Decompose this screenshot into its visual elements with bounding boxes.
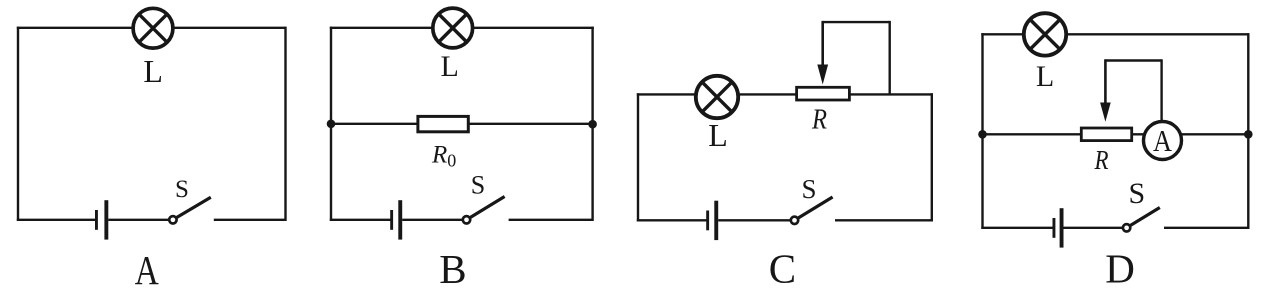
- svg-text:B: B: [439, 246, 466, 291]
- wiper arrow (D): [1100, 59, 1111, 122]
- svg-text:A: A: [135, 247, 159, 291]
- lamp L (C): [696, 76, 738, 118]
- wire: D middle branch: [983, 133, 1249, 135]
- wire: C wiper right vertical: [889, 21, 891, 96]
- junction dot (D left): [978, 130, 987, 139]
- wiper arrow (C): [817, 21, 828, 85]
- wire: B bottom right segment: [509, 219, 593, 221]
- wire: D left side: [981, 33, 983, 229]
- battery cell (C): [706, 201, 718, 240]
- wire: D bottom middle segment: [1064, 227, 1124, 229]
- rheostat R (C): [797, 87, 850, 100]
- svg-text:C: C: [769, 246, 796, 292]
- junction dot (D right): [1244, 130, 1253, 139]
- junction dot (B left): [327, 120, 336, 129]
- wire: C bottom middle segment: [718, 219, 791, 221]
- battery cell (D): [1053, 208, 1064, 247]
- lamp L (D): [1024, 13, 1066, 55]
- wire: B bottom middle segment: [402, 219, 463, 221]
- battery cell (B): [390, 200, 402, 239]
- wire: C left side: [637, 93, 639, 221]
- junction dot (B right): [588, 120, 597, 129]
- svg-text:R0: R0: [431, 142, 456, 171]
- wire: D bottom right segment: [1164, 227, 1248, 229]
- svg-text:S: S: [1128, 177, 1145, 210]
- wire: B bottom left segment: [330, 219, 391, 221]
- wire: C top side: [637, 93, 933, 95]
- wire: A right side: [284, 27, 286, 221]
- lamp L (B): [433, 8, 473, 48]
- switch S (C): [791, 197, 833, 224]
- wire: C bottom left segment: [637, 219, 707, 221]
- wire: D wiper top horizontal: [1105, 59, 1161, 61]
- switch S (B): [463, 197, 505, 224]
- wire: D bottom left segment: [981, 227, 1053, 229]
- wire: A bottom right segment: [214, 219, 286, 221]
- svg-text:L: L: [143, 53, 163, 89]
- resistor R0 (B): [418, 116, 468, 131]
- wire: C right side: [931, 93, 933, 221]
- wire: D right side: [1247, 33, 1249, 229]
- svg-text:L: L: [441, 50, 459, 83]
- switch S (D): [1123, 208, 1160, 232]
- svg-text:D: D: [1105, 246, 1135, 292]
- wire: C wiper top horizontal: [823, 21, 890, 23]
- wire: A left side: [17, 27, 19, 221]
- wire: A top side: [17, 27, 286, 29]
- wire: B top side: [330, 27, 594, 29]
- svg-text:R: R: [1094, 145, 1109, 175]
- wire: D wiper right vertical: [1160, 59, 1162, 121]
- wire: B left side: [330, 27, 332, 221]
- wire: B middle branch: [331, 123, 593, 125]
- svg-text:R: R: [811, 104, 827, 136]
- svg-text:L: L: [1036, 60, 1054, 93]
- wire: A bottom left segment: [17, 219, 96, 221]
- switch S (A): [169, 197, 211, 223]
- ammeter A (D): [1144, 122, 1182, 160]
- svg-text:S: S: [801, 174, 816, 204]
- svg-text:A: A: [1153, 123, 1173, 158]
- battery cell (A): [95, 200, 108, 239]
- wire: C bottom right segment: [835, 219, 932, 221]
- rheostat R (D): [1081, 128, 1131, 141]
- svg-text:S: S: [471, 171, 485, 200]
- wire: A bottom middle segment: [108, 219, 169, 221]
- lamp L (A): [133, 8, 173, 48]
- wire: D top side: [981, 33, 1249, 35]
- svg-text:S: S: [175, 176, 189, 203]
- svg-text:L: L: [708, 117, 728, 153]
- wire: B right side: [591, 27, 593, 221]
